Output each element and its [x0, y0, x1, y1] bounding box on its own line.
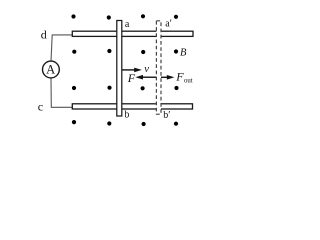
svg-text:d: d [41, 28, 47, 42]
top rail (d to a end) [72, 31, 193, 36]
svg-text:out: out [184, 78, 193, 85]
wire d-corner to ammeter [51, 35, 72, 61]
svg-text:F: F [127, 71, 136, 85]
svg-text:v: v [144, 63, 149, 75]
bottom rail (c to b end) [72, 104, 192, 109]
svg-text:b: b [124, 110, 129, 121]
wire ammeter to c-corner [51, 78, 72, 108]
displaced rod a'b' (dashed) [156, 21, 161, 114]
ammeter A [43, 61, 60, 78]
svg-text:b′: b′ [163, 110, 170, 121]
svg-text:B: B [180, 47, 187, 58]
svg-text:a: a [125, 19, 130, 30]
conducting rod ab [117, 21, 122, 117]
svg-text:A: A [46, 63, 55, 77]
svg-text:a′: a′ [165, 19, 172, 30]
magnetic field dots (B out of page) [71, 14, 178, 126]
svg-text:F: F [175, 70, 184, 84]
force arrows F (left) and F_out (right) through rod a'b' [135, 75, 174, 80]
velocity arrow v [122, 68, 142, 73]
svg-text:c: c [38, 99, 43, 113]
